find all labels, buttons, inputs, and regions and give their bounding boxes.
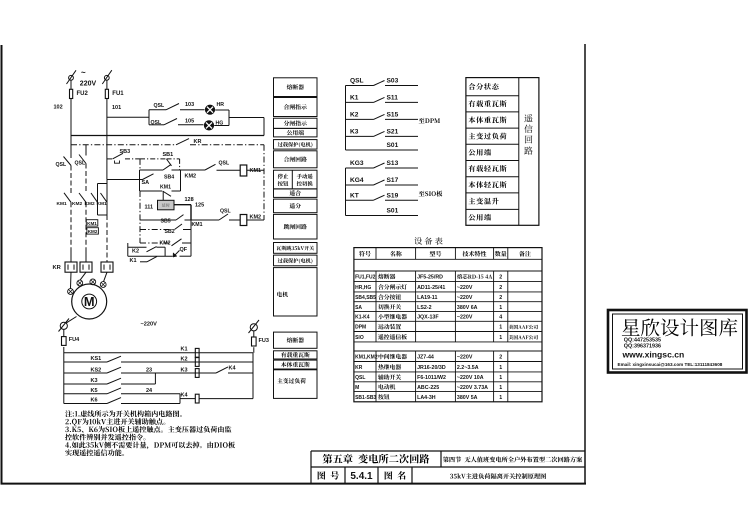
svg-text:~220V: ~220V bbox=[457, 315, 473, 321]
svg-text:K4: K4 bbox=[181, 393, 189, 399]
matrix row KS1-K2 bbox=[64, 356, 253, 366]
note line 4 bbox=[65, 434, 145, 441]
svg-text:QF: QF bbox=[180, 247, 188, 253]
remote close/open relay box bbox=[128, 243, 191, 256]
svg-text:HR: HR bbox=[217, 102, 225, 108]
telesignal table row 公用端 bbox=[468, 214, 490, 221]
svg-text:S13: S13 bbox=[387, 160, 399, 167]
logo website bbox=[622, 350, 685, 360]
svg-text:ABC-225: ABC-225 bbox=[417, 385, 439, 391]
common wire S01 (DPM) bbox=[346, 142, 419, 150]
equipment row M bbox=[355, 384, 502, 391]
svg-text:K2: K2 bbox=[350, 112, 359, 119]
contact QSL bottom (lamp HG branch) bbox=[149, 119, 204, 127]
interlock box KM2 bbox=[87, 228, 99, 235]
matrix row K5-24 bbox=[64, 388, 180, 394]
function box fuse 2 bbox=[274, 332, 318, 348]
telesignal table row 有载重瓦斯 bbox=[468, 100, 506, 107]
label ~220V aux supply bbox=[141, 321, 158, 327]
note line 5 bbox=[65, 442, 235, 450]
logo outer box bbox=[608, 310, 747, 373]
logo QQ 2 bbox=[624, 344, 661, 350]
function box closing indication bbox=[274, 98, 318, 117]
wire dashed drop right of SB1 bbox=[179, 159, 181, 170]
svg-text:QSL: QSL bbox=[56, 162, 67, 168]
fuse FU2 bbox=[70, 89, 89, 98]
svg-text:F6-1011/W2: F6-1011/W2 bbox=[417, 375, 446, 381]
equipment row QSL bbox=[355, 374, 502, 381]
svg-text:FU1,FU2: FU1,FU2 bbox=[355, 274, 376, 280]
bus wire N (solid) bbox=[71, 135, 264, 137]
contact QSL on phase B wire bbox=[75, 145, 87, 167]
coil return dashed bus bbox=[263, 145, 265, 220]
wire phase A drop bbox=[70, 80, 72, 135]
svg-text:QSL: QSL bbox=[355, 375, 365, 381]
contact K2 remote close bbox=[132, 247, 157, 255]
svg-text:K3: K3 bbox=[91, 378, 98, 384]
svg-text:KR: KR bbox=[355, 365, 363, 371]
matrix row K3 link bbox=[64, 373, 156, 384]
svg-text:KM1: KM1 bbox=[160, 185, 171, 191]
thermal contact KR on bus bbox=[71, 139, 264, 145]
svg-text:SB5: SB5 bbox=[161, 218, 171, 224]
wire lamp return bbox=[229, 118, 264, 136]
function box common terminal bbox=[274, 128, 318, 137]
wire group bus to SIO bbox=[345, 168, 347, 216]
svg-text:KM1: KM1 bbox=[250, 168, 262, 174]
svg-text:K2: K2 bbox=[132, 249, 139, 255]
svg-text:KM1: KM1 bbox=[192, 222, 203, 228]
svg-text:M: M bbox=[355, 385, 359, 391]
svg-text:K3: K3 bbox=[350, 129, 359, 136]
switch SA bbox=[107, 174, 154, 186]
svg-text:125: 125 bbox=[195, 203, 204, 209]
svg-text:KM1: KM1 bbox=[57, 201, 67, 207]
title chapter bbox=[323, 454, 430, 464]
svg-text:KT: KT bbox=[350, 192, 359, 199]
svg-text:SB4,SB5: SB4,SB5 bbox=[355, 295, 376, 301]
svg-text:KS2: KS2 bbox=[91, 367, 102, 373]
matrix row KS2-23-K3-K4 bbox=[64, 366, 253, 378]
telesignal table row 主变温升 bbox=[469, 198, 499, 205]
svg-text:1: 1 bbox=[499, 325, 502, 331]
svg-text:4: 4 bbox=[499, 315, 502, 321]
svg-text:QSL: QSL bbox=[154, 103, 165, 109]
function box overload protection motor 2 bbox=[274, 255, 318, 266]
wire 105 label bbox=[185, 119, 194, 125]
equipment table header bbox=[359, 251, 531, 257]
equipment row SB1-SB3 bbox=[355, 394, 502, 401]
svg-text:KM1,KM2: KM1,KM2 bbox=[355, 355, 378, 361]
equipment row HR,HG bbox=[355, 284, 502, 291]
function box opening indication bbox=[274, 118, 318, 128]
label KM2 wire tag bbox=[185, 174, 197, 180]
svg-text:LA4-3H: LA4-3H bbox=[417, 395, 436, 401]
wire fuse FU3 to matrix bbox=[253, 347, 255, 353]
wire phase C drop dashed bbox=[106, 215, 108, 262]
contact QSL in trip circuit bbox=[219, 209, 240, 221]
svg-text:KG4: KG4 bbox=[350, 177, 364, 184]
wire phase B drop bbox=[106, 80, 108, 179]
svg-text:2: 2 bbox=[499, 274, 502, 280]
equipment row KR bbox=[355, 364, 502, 371]
disconnect switch input phase B bbox=[102, 70, 112, 84]
telesignal table row 公用端 bbox=[468, 149, 490, 156]
title fig-no value bbox=[350, 471, 373, 482]
svg-text:5.4.1: 5.4.1 bbox=[350, 471, 373, 482]
equipment table title bbox=[414, 237, 442, 245]
svg-text:KM2: KM2 bbox=[185, 174, 197, 180]
svg-text:KM2: KM2 bbox=[88, 229, 98, 234]
thermal element KR phase A bbox=[65, 262, 77, 272]
wire dashed SB3 to SB1 bbox=[140, 158, 166, 160]
svg-text:FU1: FU1 bbox=[112, 91, 124, 97]
title section bbox=[443, 456, 582, 462]
svg-text:380V 5A: 380V 5A bbox=[457, 395, 478, 401]
svg-text:K1: K1 bbox=[130, 258, 137, 264]
svg-text:102: 102 bbox=[54, 105, 63, 111]
contact KG3 telesignal S13 bbox=[346, 160, 419, 168]
svg-text:DPM: DPM bbox=[355, 325, 366, 331]
svg-text:KM1: KM1 bbox=[97, 201, 107, 207]
title drawing name bbox=[450, 473, 546, 479]
drawing frame left border bbox=[1, 45, 3, 484]
title fig-no label bbox=[318, 471, 339, 479]
telesignal table row 合分状态 bbox=[469, 83, 499, 90]
svg-text:QSL: QSL bbox=[350, 78, 364, 85]
label to SIO board bbox=[419, 191, 443, 197]
svg-text:1: 1 bbox=[499, 385, 502, 391]
svg-text:103: 103 bbox=[185, 102, 194, 108]
svg-text:~220V: ~220V bbox=[141, 321, 158, 327]
svg-text:1: 1 bbox=[499, 375, 502, 381]
node 125 label bbox=[195, 203, 204, 209]
svg-text:JR16-20/3D: JR16-20/3D bbox=[417, 365, 446, 371]
svg-text:JZ7-44: JZ7-44 bbox=[417, 355, 434, 361]
svg-text:S21: S21 bbox=[387, 129, 399, 136]
contact QSL telesignal S03 bbox=[346, 78, 419, 86]
button SB3 bbox=[107, 149, 140, 163]
wire to aux switch matrix bbox=[63, 347, 65, 404]
drawing frame right border bbox=[584, 44, 586, 484]
button SB1 bbox=[163, 152, 180, 166]
svg-text:111: 111 bbox=[145, 204, 154, 210]
svg-text:www.xingsc.cn: www.xingsc.cn bbox=[622, 350, 685, 360]
common wire S01 (SIO) bbox=[346, 208, 419, 216]
note line 1 bbox=[65, 410, 182, 417]
equipment row KM1,KM2 bbox=[355, 354, 502, 361]
function box main transformer overload bbox=[274, 370, 318, 399]
function box motor bbox=[274, 268, 318, 316]
function box closing circuit bbox=[274, 151, 318, 168]
motor terminal t3 bbox=[90, 279, 96, 285]
contact K1 remote open bbox=[130, 256, 158, 263]
equipment row DPM bbox=[355, 324, 538, 331]
note line 3 bbox=[65, 426, 231, 433]
svg-text:QSL: QSL bbox=[75, 161, 86, 167]
svg-text:KG3: KG3 bbox=[350, 160, 364, 167]
label to DPM bbox=[419, 118, 440, 124]
svg-text:K2: K2 bbox=[181, 356, 188, 362]
indicator lamp HR bbox=[205, 102, 229, 114]
svg-text:2: 2 bbox=[499, 285, 502, 291]
contact KT telesignal S19 bbox=[346, 192, 419, 200]
button SB4 bbox=[140, 165, 206, 181]
motor terminal t4 bbox=[100, 272, 107, 287]
svg-text:Email: xingxinsucai@163.com T: Email: xingxinsucai@163.com TEL:13111843… bbox=[618, 362, 723, 367]
disconnect switch below motor bbox=[59, 319, 70, 332]
contact KM2 aux bbox=[140, 239, 191, 247]
contact KM1 self-hold bbox=[140, 185, 181, 197]
telesignal table vertical label 遥信回路 bbox=[524, 114, 532, 155]
svg-text:S03: S03 bbox=[387, 78, 399, 85]
contactor coil KM2 bbox=[240, 215, 264, 226]
node 128 label bbox=[185, 197, 194, 203]
svg-text:23: 23 bbox=[146, 367, 152, 373]
button SB5 bbox=[140, 215, 219, 225]
svg-text:S01: S01 bbox=[387, 142, 399, 149]
svg-text:FU3: FU3 bbox=[259, 338, 269, 344]
logo QQ 1 bbox=[624, 338, 661, 344]
svg-text:M: M bbox=[84, 294, 95, 309]
equipment row SIO bbox=[355, 334, 538, 341]
svg-text:SB1-SB3: SB1-SB3 bbox=[355, 395, 376, 401]
function box stop button / manual-remote switch bbox=[274, 170, 318, 189]
svg-text:~220V: ~220V bbox=[457, 355, 473, 361]
matrix K5/K6 join to K4 coil bbox=[180, 393, 253, 404]
contact QF aux bbox=[173, 247, 188, 257]
telesignal table row 有载轻瓦斯 bbox=[468, 165, 506, 172]
svg-text:SB1: SB1 bbox=[163, 152, 174, 158]
function box gas trip 35kV switch bbox=[274, 243, 318, 254]
svg-text:24: 24 bbox=[146, 388, 153, 394]
contact K1 telesignal S11 bbox=[346, 95, 419, 103]
indicator lamp HG bbox=[204, 121, 229, 131]
svg-text:~220V: ~220V bbox=[457, 295, 473, 301]
function box body heavy gas bbox=[274, 360, 318, 369]
svg-text:K3: K3 bbox=[181, 367, 188, 373]
contact KM2 interlock bbox=[85, 193, 98, 207]
telesignal table row 本体轻瓦斯 bbox=[468, 181, 506, 188]
logo email/tel bbox=[618, 362, 723, 367]
svg-text:JQX-13F: JQX-13F bbox=[417, 315, 439, 321]
svg-text:SB4: SB4 bbox=[164, 175, 174, 181]
logo title 星欣设计图库 bbox=[622, 318, 737, 336]
note line 2 bbox=[65, 418, 165, 426]
motor terminal t1 bbox=[68, 272, 74, 294]
svg-text:K1: K1 bbox=[181, 347, 188, 353]
wire lamp feed bbox=[107, 116, 149, 118]
svg-text:K4: K4 bbox=[229, 366, 237, 372]
svg-text:KR: KR bbox=[53, 265, 62, 271]
svg-text:101: 101 bbox=[112, 105, 121, 111]
wire group bus to DPM bbox=[345, 86, 347, 151]
svg-text:KM2: KM2 bbox=[160, 241, 171, 247]
telesignal table row 主变过负荷 bbox=[469, 133, 507, 140]
contact KM1 main on phase A wire bbox=[57, 166, 72, 263]
contact KM2 main on phase B wire bbox=[72, 164, 86, 263]
function box fuse bbox=[274, 78, 318, 97]
label ~220V source bbox=[80, 68, 97, 88]
motor M bbox=[72, 284, 107, 319]
svg-text:1: 1 bbox=[499, 395, 502, 401]
svg-text:KM2: KM2 bbox=[85, 201, 95, 207]
wire 101 label bbox=[112, 105, 121, 111]
svg-text:S01: S01 bbox=[387, 208, 399, 215]
svg-text:~220V 10A: ~220V 10A bbox=[457, 375, 484, 381]
wire relay output corner bbox=[174, 205, 191, 220]
disconnect switch input phase A bbox=[67, 70, 77, 84]
svg-text:KM2: KM2 bbox=[72, 201, 82, 207]
contact QSL on phase A wire bbox=[56, 136, 72, 169]
matrix row K6 bbox=[64, 398, 180, 404]
matrix right bus bbox=[252, 353, 254, 399]
title fig-name label bbox=[385, 471, 406, 480]
note line 6 bbox=[65, 449, 124, 456]
fuse FU1 bbox=[105, 89, 124, 98]
wire vertical trip node bbox=[190, 220, 192, 256]
svg-text:QSL: QSL bbox=[151, 120, 162, 126]
svg-text:K6: K6 bbox=[91, 398, 98, 404]
equipment row SB4,SB5 bbox=[355, 294, 502, 301]
function box remote close bbox=[274, 189, 318, 198]
svg-text:KR: KR bbox=[194, 139, 202, 145]
svg-text:K1: K1 bbox=[350, 95, 359, 102]
contact K3 telesignal S21 bbox=[346, 129, 419, 137]
svg-text:220V: 220V bbox=[80, 81, 97, 88]
svg-text:AD11-25/41: AD11-25/41 bbox=[417, 285, 445, 291]
svg-text:~: ~ bbox=[81, 68, 86, 77]
logo inner box bbox=[613, 314, 743, 369]
function box on-load heavy gas bbox=[274, 351, 318, 359]
telesignal table row 本体重瓦斯 bbox=[468, 116, 506, 123]
function box remote open bbox=[274, 199, 318, 213]
svg-text:S17: S17 bbox=[387, 177, 399, 184]
svg-text:128: 128 bbox=[185, 197, 194, 203]
svg-text:JF5-25/RD: JF5-25/RD bbox=[417, 274, 443, 280]
close-circuit box outline bbox=[140, 170, 181, 191]
mechanism dashed drop left bbox=[139, 159, 141, 243]
label KR bbox=[53, 265, 62, 271]
label KM1 trip wire tag bbox=[192, 222, 203, 228]
wire 103 label bbox=[185, 102, 194, 108]
svg-text:1: 1 bbox=[499, 335, 502, 341]
contact QSL top (lamp HR branch) bbox=[149, 103, 205, 110]
svg-text:S11: S11 bbox=[387, 95, 399, 102]
contact KM1 interlock bbox=[97, 193, 108, 207]
function box trip circuit bbox=[274, 214, 318, 239]
contact K2 telesignal S15 bbox=[346, 112, 419, 120]
function box overload protection motor bbox=[274, 140, 318, 150]
svg-text:SA: SA bbox=[142, 180, 150, 186]
lamp branch left riser bbox=[148, 110, 150, 125]
svg-text:105: 105 bbox=[185, 119, 194, 125]
motor earth lead bbox=[67, 317, 77, 323]
svg-text:SA: SA bbox=[355, 305, 362, 311]
matrix row K1 bbox=[64, 347, 253, 358]
svg-text:FU4: FU4 bbox=[69, 337, 80, 343]
svg-text:2: 2 bbox=[499, 355, 502, 361]
svg-text:380V 6A: 380V 6A bbox=[457, 305, 478, 311]
svg-text:SB2: SB2 bbox=[165, 229, 175, 235]
telesignal table grid bbox=[466, 78, 539, 226]
contact QSL in close circuit bbox=[205, 161, 240, 171]
contact KG4 telesignal S17 bbox=[346, 177, 419, 185]
title block outline bbox=[311, 451, 585, 484]
thermal element KR phase C bbox=[101, 262, 113, 272]
motor terminal t2 bbox=[77, 272, 86, 286]
svg-text:SB3: SB3 bbox=[120, 149, 131, 155]
thermal element KR phase B bbox=[80, 262, 92, 272]
interlock box KM1 bbox=[86, 220, 98, 227]
disconnect switch aux right bbox=[249, 320, 260, 333]
svg-text:2.2~3.5A: 2.2~3.5A bbox=[457, 365, 479, 371]
svg-text:SIO: SIO bbox=[355, 335, 364, 341]
wire 102 label bbox=[54, 105, 63, 111]
svg-text:K5: K5 bbox=[91, 388, 98, 394]
svg-text:LA19-11: LA19-11 bbox=[417, 295, 437, 301]
svg-text:S19: S19 bbox=[387, 192, 399, 199]
svg-text:K1-K4: K1-K4 bbox=[355, 315, 370, 321]
equipment row SA bbox=[355, 304, 502, 311]
svg-text:LS2-2: LS2-2 bbox=[417, 305, 431, 311]
fuse FU4 bbox=[62, 329, 81, 345]
equipment table grid bbox=[354, 248, 542, 402]
fuse FU3 bbox=[252, 331, 269, 346]
svg-text:S15: S15 bbox=[387, 112, 399, 119]
parallel interlock branch box bbox=[98, 179, 108, 215]
contactor coil KM1 bbox=[240, 165, 264, 176]
svg-text:QSL: QSL bbox=[219, 161, 230, 167]
time relay delay text bbox=[162, 203, 170, 207]
equipment row FU1,FU2 bbox=[355, 274, 502, 281]
time relay 111 bbox=[145, 191, 175, 210]
svg-text:~220V: ~220V bbox=[457, 285, 473, 291]
svg-text:HR,HG: HR,HG bbox=[355, 285, 371, 291]
svg-text:2: 2 bbox=[499, 295, 502, 301]
svg-text:~220V 3.73A: ~220V 3.73A bbox=[457, 385, 488, 391]
button SB2 bbox=[140, 224, 191, 235]
svg-text:FU2: FU2 bbox=[77, 91, 89, 97]
svg-text:1: 1 bbox=[499, 305, 502, 311]
svg-text:KS1: KS1 bbox=[91, 356, 102, 362]
svg-text:1: 1 bbox=[499, 365, 502, 371]
svg-text:QSL: QSL bbox=[220, 209, 231, 215]
equipment row K1-K4 bbox=[355, 314, 502, 321]
drawing frame bottom border bbox=[1, 483, 587, 485]
lamp branch right riser bbox=[228, 110, 230, 126]
svg-text:KM1: KM1 bbox=[87, 221, 97, 226]
